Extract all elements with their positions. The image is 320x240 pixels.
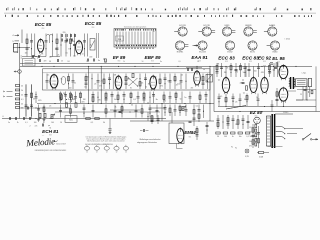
svg-text:8n: 8n — [114, 99, 116, 101]
svg-text:5n: 5n — [82, 54, 84, 56]
left rail — [19, 43, 21, 119]
svg-text:2k: 2k — [68, 99, 70, 101]
wire mid second bus — [101, 111, 160, 113]
wire second mid bus — [55, 111, 101, 113]
svg-text:2k: 2k — [123, 61, 125, 63]
svg-text:100: 100 — [69, 88, 72, 90]
svg-text:25: 25 — [226, 68, 228, 70]
output transformer — [289, 77, 295, 89]
mid band component column — [111, 92, 117, 104]
svg-text:ECC83: ECC83 — [199, 52, 206, 54]
tube EC92 — [261, 76, 268, 94]
wire em84 bottom — [177, 144, 183, 149]
svg-text:470: 470 — [98, 100, 101, 102]
svg-text:0,5: 0,5 — [220, 96, 222, 98]
svg-text:0,5: 0,5 — [65, 53, 67, 55]
svg-text:25: 25 — [61, 61, 63, 63]
wire bottom mid bus — [130, 120, 214, 122]
power transformer core — [272, 114, 274, 148]
svg-text:0,1: 0,1 — [196, 106, 199, 108]
svg-text:470: 470 — [154, 77, 157, 79]
mid band component column — [169, 92, 172, 104]
svg-text:470: 470 — [99, 86, 102, 88]
between-bus component columns — [59, 105, 62, 118]
left ladder components — [25, 85, 28, 116]
IF transformer crossing network — [128, 73, 138, 86]
svg-text:50: 50 — [181, 75, 183, 77]
IF strip component column — [91, 74, 96, 90]
arrow before second bottom socket — [193, 45, 198, 47]
wire vertical feed x210 — [209, 66, 211, 121]
upper band small parts — [39, 58, 106, 62]
svg-text:3k: 3k — [148, 84, 150, 86]
IF strip component column — [159, 74, 161, 90]
tube EBF89 IF demodulator — [150, 75, 157, 91]
filter block box — [65, 116, 77, 123]
left ladder lower columns — [37, 105, 45, 122]
audio lower labels — [220, 96, 258, 103]
svg-text:25: 25 — [49, 106, 51, 108]
tube socket diagram EAA91 top row — [264, 24, 277, 36]
svg-text:12: 12 — [125, 152, 127, 154]
IF strip component column — [97, 74, 100, 90]
svg-text:EC92: EC92 — [227, 52, 233, 54]
notes paragraph — [86, 136, 127, 143]
svg-text:5n: 5n — [184, 97, 186, 99]
wire lower mid links — [46, 108, 165, 110]
mid band component column — [130, 92, 136, 104]
svg-text:2: 2 — [30, 126, 31, 128]
coupling parts between audio tubes — [242, 79, 248, 94]
mid band component column — [163, 92, 165, 104]
svg-text:0,1: 0,1 — [194, 79, 196, 81]
svg-text:25: 25 — [176, 85, 178, 87]
bus junction dots — [41, 66, 296, 67]
mid band component column — [97, 92, 98, 104]
svg-text:0,5: 0,5 — [273, 70, 275, 72]
power supply component column — [247, 115, 250, 129]
svg-text:8n: 8n — [98, 60, 100, 62]
fuse under transformer — [257, 151, 269, 158]
front end trimmer cluster — [31, 55, 41, 59]
svg-text:2k: 2k — [17, 122, 19, 124]
speaker field wires — [296, 87, 303, 101]
svg-text:NIEDERFREQUENZ- UND RUNDFUNKWE: NIEDERFREQUENZ- UND RUNDFUNKWERK — [35, 150, 66, 152]
front end component column — [35, 34, 40, 57]
svg-text:470: 470 — [44, 61, 47, 63]
parts legend row 1 — [6, 7, 311, 10]
svg-text:8n: 8n — [229, 85, 231, 87]
tube ECH81 mixer — [50, 74, 58, 90]
svg-text:EZ 80: EZ 80 — [250, 110, 263, 115]
svg-text:10n: 10n — [54, 85, 57, 87]
svg-text:0,1: 0,1 — [25, 122, 27, 124]
mid band component column — [35, 92, 42, 104]
wire front end link — [22, 56, 46, 58]
svg-text:470: 470 — [89, 57, 92, 59]
front end component column — [83, 34, 86, 57]
left edge arrow — [2, 116, 5, 119]
svg-text:5k: 5k — [103, 122, 105, 124]
chassis box inner line — [43, 72, 211, 74]
audio section component column upper — [244, 63, 247, 77]
svg-text:0,1: 0,1 — [133, 99, 136, 101]
wires to switch — [285, 129, 303, 134]
tube socket diagram ECC83 bottom row — [194, 41, 207, 54]
svg-text:25: 25 — [94, 84, 96, 86]
svg-text:5n: 5n — [33, 99, 35, 101]
wire right low bus B — [214, 111, 320, 113]
svg-text:25: 25 — [300, 94, 302, 96]
dial lamp symbols — [245, 149, 250, 158]
svg-text:0,5: 0,5 — [178, 61, 180, 63]
wire antenna to grid — [13, 47, 30, 49]
bus value labels — [49, 61, 199, 63]
small coupling cap — [140, 129, 149, 132]
mid band component column — [152, 92, 158, 104]
svg-text:470: 470 — [235, 72, 238, 74]
svg-text:ECC85: ECC85 — [203, 25, 210, 27]
tube ECC85 system a — [38, 38, 44, 54]
svg-text:⇅⇅: ⇅⇅ — [118, 38, 122, 41]
svg-text:10n: 10n — [127, 79, 130, 81]
mid band component column — [189, 92, 192, 104]
svg-text:10n: 10n — [251, 81, 254, 83]
audio section component column upper — [235, 63, 238, 77]
svg-text:100: 100 — [34, 122, 37, 124]
tube ECC85 system b — [76, 40, 83, 56]
left column resistor with value — [15, 107, 23, 110]
left terminal strip marks — [3, 89, 13, 98]
tube socket diagram ECH81 bottom row — [175, 41, 188, 54]
svg-text:50: 50 — [60, 122, 62, 124]
svg-text:10n: 10n — [140, 83, 143, 85]
right column wire — [306, 82, 308, 100]
wire vertical feed x214 section divider — [213, 66, 215, 111]
svg-text:50: 50 — [250, 136, 252, 138]
audio section component column upper — [220, 63, 227, 77]
mains switch — [302, 134, 318, 141]
svg-text:○ 1mm: ○ 1mm — [284, 37, 291, 40]
wire bottom-left bus — [5, 118, 166, 120]
svg-text:0,5: 0,5 — [280, 70, 283, 72]
IF strip component column — [68, 74, 70, 90]
svg-text:470: 470 — [249, 145, 252, 147]
power supply component column — [227, 115, 230, 129]
front end component column — [60, 34, 61, 57]
svg-text:8n: 8n — [130, 88, 132, 90]
svg-text:10n: 10n — [25, 53, 28, 55]
mid band component column — [205, 92, 208, 104]
EM84 enclosure box — [169, 123, 184, 144]
mid band component column — [175, 92, 177, 104]
tube EF89 IF amplifier — [115, 75, 122, 91]
svg-text:853: 853 — [151, 61, 154, 63]
svg-text:a•5: a•5 — [35, 126, 38, 128]
svg-text:EAA 91: EAA 91 — [191, 55, 208, 60]
svg-text:2k: 2k — [21, 90, 23, 92]
mid band component column — [80, 92, 86, 104]
svg-text:3x: 3x — [153, 31, 155, 33]
svg-text:0,1: 0,1 — [246, 136, 248, 138]
IF strip component column — [164, 74, 167, 90]
audio mid labels — [218, 80, 254, 87]
svg-text:5n: 5n — [180, 99, 182, 101]
tube socket diagram EL95 bottom row — [248, 41, 257, 54]
svg-text:25: 25 — [147, 103, 149, 105]
svg-text:853: 853 — [225, 61, 228, 63]
svg-text:25: 25 — [21, 85, 23, 87]
audio section component column upper — [278, 63, 283, 77]
push-button switch table — [114, 29, 156, 48]
volume potentiometer box — [206, 74, 213, 82]
svg-text:10n: 10n — [49, 57, 52, 59]
svg-text:12: 12 — [96, 152, 98, 154]
svg-text:0,1: 0,1 — [218, 80, 220, 82]
svg-text:12: 12 — [116, 152, 118, 154]
svg-text:5n: 5n — [115, 85, 117, 87]
svg-text:EL 95: EL 95 — [272, 56, 285, 61]
tube socket diagram EBF89 top row — [244, 25, 257, 36]
svg-text:0,1: 0,1 — [91, 122, 94, 124]
switch table under ticks — [117, 48, 154, 49]
IF strip component column — [174, 74, 180, 90]
left ladder components — [30, 85, 33, 116]
svg-text:100: 100 — [224, 136, 227, 138]
svg-text:470: 470 — [163, 101, 166, 103]
audio section component column upper — [240, 63, 245, 77]
aerial lead wire — [21, 30, 23, 44]
IF strip component column — [108, 74, 111, 90]
mid band component column — [143, 92, 146, 104]
IF strip component column — [207, 74, 208, 90]
svg-text:100: 100 — [254, 71, 257, 73]
bottom dashes — [268, 146, 283, 148]
svg-text:470: 470 — [81, 102, 84, 104]
voltage divider resistor row — [216, 132, 250, 138]
svg-text:0,5: 0,5 — [47, 75, 49, 77]
svg-text:ECC 85: ECC 85 — [85, 21, 102, 26]
svg-text:3k: 3k — [105, 61, 107, 63]
EL95 column parts — [271, 88, 279, 112]
divider stack near transformer — [252, 124, 261, 148]
IF strip component column — [85, 74, 88, 90]
front end component column — [45, 34, 48, 57]
front end sub labels — [25, 53, 93, 59]
audio section component column upper — [230, 63, 232, 77]
oscillator coil top — [47, 34, 53, 43]
mid band component column — [137, 92, 140, 104]
audio section component column upper — [257, 63, 264, 77]
svg-text:25: 25 — [235, 102, 237, 104]
alignment coil symbols row — [84, 145, 128, 154]
svg-text:853: 853 — [42, 28, 45, 30]
svg-text:5n: 5n — [41, 54, 43, 56]
svg-text:25: 25 — [21, 103, 23, 105]
band filter box — [90, 39, 95, 51]
svg-text:853: 853 — [249, 61, 252, 63]
svg-text:ECC 83: ECC 83 — [242, 56, 259, 61]
oscillator coil ellipse — [61, 77, 66, 85]
legend divider line — [4, 12, 316, 14]
transformer secondary taps — [276, 127, 286, 140]
mid band component column — [123, 92, 126, 104]
mid band component column — [182, 92, 186, 104]
svg-text:50: 50 — [217, 136, 219, 138]
svg-text:100: 100 — [51, 122, 54, 124]
left column resistor with value — [15, 98, 23, 101]
wire EZ80 cathode drop — [282, 101, 284, 107]
mid band component column — [117, 92, 119, 104]
detector parts cluster — [164, 105, 167, 117]
svg-text:10n: 10n — [269, 72, 272, 74]
IF strip component column — [125, 74, 128, 90]
tube socket diagram ECC85 top row — [198, 25, 215, 36]
svg-text:EM84: EM84 — [184, 130, 196, 135]
rail tick marks — [21, 56, 23, 58]
audio section component column upper — [216, 63, 219, 77]
svg-text:12: 12 — [106, 152, 108, 154]
IF strip component column — [46, 74, 49, 90]
svg-text:5n: 5n — [203, 69, 205, 71]
volume pot arrow right — [181, 106, 186, 111]
svg-text:ECC 83: ECC 83 — [218, 56, 235, 61]
mains wire top — [275, 113, 293, 115]
svg-text:0,1: 0,1 — [243, 93, 245, 95]
IF strip component column — [72, 74, 75, 90]
EZ80 socket circle — [254, 117, 261, 124]
wire upper bus B — [20, 65, 312, 67]
wire ECC83 a anode — [225, 66, 227, 77]
wire EM84 drop — [171, 112, 173, 123]
svg-text:ECH 81: ECH 81 — [42, 129, 59, 134]
tube EL95 output — [279, 64, 288, 80]
wire EL95 grid feed — [282, 65, 284, 68]
parts above ECH81 label — [30, 124, 51, 128]
svg-text:25: 25 — [21, 107, 23, 109]
IF strip component column — [139, 74, 141, 90]
audio section component column upper — [268, 63, 271, 77]
tube socket diagram ECC85 top row — [174, 25, 187, 36]
tuning indicator feed chain — [189, 121, 209, 140]
svg-text:8n: 8n — [160, 61, 162, 63]
svg-text:12: 12 — [86, 152, 88, 154]
svg-text:10n: 10n — [239, 136, 242, 138]
svg-text:5n: 5n — [197, 61, 199, 63]
left ladder rail — [25, 84, 27, 119]
IF strip component column — [202, 74, 205, 90]
mid band component column — [70, 92, 72, 104]
front end component column — [73, 34, 76, 57]
audio section component column lower — [257, 94, 260, 107]
svg-text:470: 470 — [160, 86, 163, 88]
svg-text:50: 50 — [250, 132, 252, 134]
tone network columns — [193, 105, 205, 127]
svg-text:853: 853 — [263, 61, 266, 63]
audio section component column lower — [239, 94, 242, 107]
ratio detector top parts — [186, 67, 205, 71]
volume potentiometer arrow — [50, 114, 55, 119]
wire vertical feed x88 — [87, 66, 89, 103]
svg-text:ECH81: ECH81 — [177, 52, 184, 54]
dense resistor cluster under mixer — [61, 93, 78, 107]
svg-text:0,5: 0,5 — [249, 127, 251, 129]
power supply component column — [217, 115, 220, 129]
coil box at rail — [23, 59, 36, 67]
svg-text:ECC85: ECC85 — [179, 25, 186, 27]
tube EM84 magic eye — [177, 127, 184, 144]
svg-text:⊢: ⊢ — [3, 94, 5, 98]
svg-text:50k: 50k — [73, 99, 76, 101]
front end component column — [56, 34, 59, 57]
svg-text:470: 470 — [240, 83, 243, 85]
chassis box — [43, 69, 211, 90]
tube EAA91 ratio detector — [194, 70, 201, 87]
front end component column — [65, 34, 71, 57]
power supply component column — [242, 115, 245, 129]
parts legend row 2 — [5, 15, 312, 17]
svg-text:5n: 5n — [232, 136, 234, 138]
svg-text:3k: 3k — [115, 107, 117, 109]
mid band component column — [199, 92, 201, 104]
aerial terminal 5 — [12, 41, 19, 43]
bottom mid components — [147, 112, 159, 124]
divider ladder rungs — [249, 124, 257, 147]
IF strip component column — [113, 74, 117, 90]
svg-text:0,1: 0,1 — [21, 99, 24, 101]
svg-text:2k: 2k — [86, 61, 88, 63]
power supply component column — [232, 115, 238, 129]
audio section component column lower — [218, 94, 221, 107]
svg-text:EAA91: EAA91 — [269, 24, 276, 27]
svg-text:100: 100 — [177, 84, 180, 86]
far right rail — [315, 66, 317, 111]
EL95 left parts — [269, 63, 278, 74]
svg-text:Wellenlagen umschalten bei: Wellenlagen umschalten bei — [139, 138, 161, 141]
front end component column — [26, 34, 29, 57]
wire vertical feed x101 — [100, 66, 102, 103]
svg-text:8n: 8n — [156, 99, 158, 101]
audio section component column lower — [246, 94, 248, 107]
svg-text:853: 853 — [118, 61, 121, 63]
svg-text:25: 25 — [101, 81, 103, 83]
svg-text:EBF89: EBF89 — [245, 25, 252, 27]
svg-text:ECC 85: ECC 85 — [35, 22, 52, 27]
svg-text:5n: 5n — [60, 79, 62, 81]
tube EZ80 rectifier — [279, 87, 288, 103]
aerial terminal 4 — [12, 35, 19, 38]
svg-text:ECHO KURZWELLENBEREICH: ECHO KURZWELLENBEREICH — [85, 144, 113, 146]
svg-text:50: 50 — [142, 61, 144, 63]
mains arrow — [316, 139, 318, 141]
front end component column — [88, 34, 92, 57]
diagonal link power — [226, 106, 246, 110]
svg-text:1M: 1M — [224, 72, 227, 74]
svg-text:853: 853 — [92, 27, 95, 29]
audio section component column upper — [248, 63, 251, 77]
logo Melodie — [25, 136, 58, 148]
svg-text:861: 861 — [189, 137, 192, 139]
svg-text:EC 92: EC 92 — [258, 56, 271, 61]
tube ECC83 triode a — [222, 76, 229, 94]
wire EC92 anode — [264, 66, 266, 77]
svg-text:220V~: 220V~ — [283, 112, 290, 114]
svg-text:Gerät 4/617: Gerät 4/617 — [56, 143, 66, 146]
front end component column — [52, 34, 58, 57]
audio section component column upper — [273, 63, 274, 77]
front end component column — [30, 34, 33, 57]
IF strip component column — [180, 74, 183, 90]
